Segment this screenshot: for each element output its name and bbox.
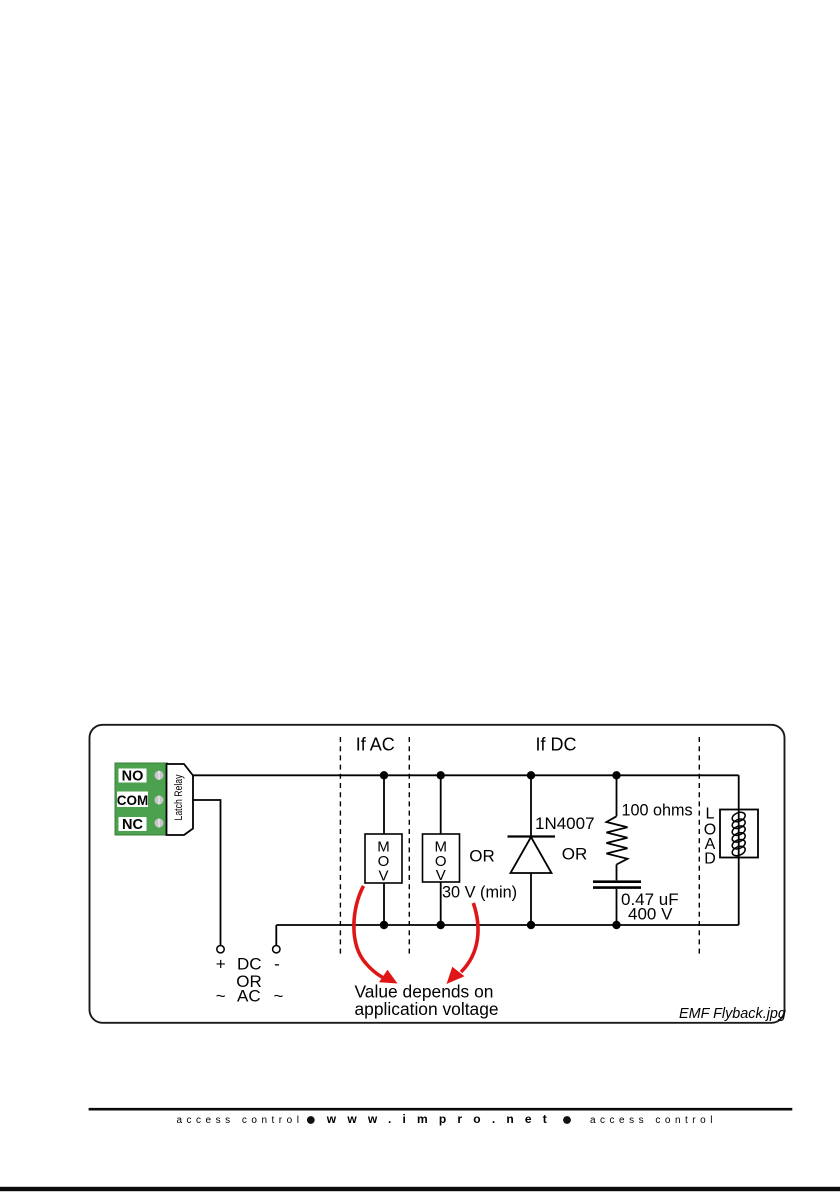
wire MOV2 bottom lead: [440, 882, 442, 925]
svg-text:400 V: 400 V: [628, 905, 673, 924]
varistor MOV1: [365, 834, 402, 883]
svg-text:D: D: [704, 850, 716, 867]
svg-text:AC: AC: [237, 987, 261, 1006]
diode D1 triangle: [511, 837, 552, 873]
footer bullet left: [307, 1116, 315, 1124]
inductor coil: [731, 810, 747, 857]
node bottom MOV1: [380, 921, 388, 929]
screw NO: [155, 771, 164, 780]
node top MOV2: [437, 771, 445, 779]
relay housing (Latch Relay): [167, 764, 194, 835]
wire bottom rail: [276, 924, 738, 926]
load box: [720, 810, 758, 858]
terminal label NO: [119, 769, 147, 783]
svg-text:30 V (min): 30 V (min): [442, 884, 517, 902]
load wire through box: [738, 810, 740, 858]
node bottom diode: [527, 921, 535, 929]
terminal circle minus: [273, 946, 280, 953]
wire MOV1 bottom lead: [383, 883, 385, 925]
svg-text:www.impro.net: www.impro.net: [326, 1112, 558, 1126]
svg-text:NO: NO: [122, 769, 144, 785]
svg-text:OR: OR: [562, 845, 588, 864]
dashed separator line left of If AC: [339, 737, 341, 955]
wire minus terminal drop: [275, 925, 277, 946]
svg-text:NC: NC: [122, 817, 143, 833]
svg-text:access control: access control: [590, 1115, 717, 1126]
screw COM: [155, 796, 164, 805]
svg-text:access control: access control: [177, 1115, 304, 1126]
svg-text:V: V: [378, 868, 388, 885]
screw NC: [155, 819, 164, 828]
svg-text:If AC: If AC: [356, 735, 395, 755]
wire top rail from NO to load branch: [193, 774, 739, 776]
varistor MOV2: [423, 834, 460, 882]
wire load branch vertical: [738, 775, 740, 925]
diagram frame: [90, 725, 785, 1023]
svg-text:~: ~: [274, 987, 284, 1006]
node top diode: [527, 771, 535, 779]
wire diode bottom lead: [530, 873, 532, 925]
wire MOV2 top lead: [440, 775, 442, 834]
bottom edge bar: [0, 1187, 840, 1191]
red annotation arrow right: [461, 903, 478, 972]
svg-text:application voltage: application voltage: [355, 999, 499, 1019]
footer rule: [89, 1108, 793, 1111]
svg-text:V: V: [436, 867, 446, 884]
svg-text:OR: OR: [469, 847, 495, 866]
svg-text:If DC: If DC: [535, 735, 576, 755]
svg-text:Latch Relay: Latch Relay: [173, 774, 185, 820]
capacitor plate bottom: [593, 886, 641, 889]
node top MOV1: [380, 771, 388, 779]
svg-text:1N4007: 1N4007: [535, 814, 595, 833]
wire MOV1 top lead: [383, 775, 385, 834]
svg-text:L: L: [706, 805, 715, 822]
svg-text:DC: DC: [237, 955, 262, 974]
wire diode top lead: [530, 775, 532, 836]
dashed separator line between If AC and If DC: [408, 737, 410, 955]
red annotation arrow left: [354, 886, 386, 979]
capacitor plate top: [593, 880, 641, 883]
footer bullet right: [563, 1116, 571, 1124]
resistor 100 ohms zigzag: [606, 816, 627, 864]
wire from COM terminal: [193, 800, 221, 946]
wire resistor top lead: [616, 775, 618, 816]
svg-text:-: -: [274, 955, 280, 974]
svg-text:COM: COM: [117, 793, 149, 808]
wire resistor to capacitor: [616, 865, 618, 881]
terminal label COM: [117, 792, 148, 808]
node bottom capacitor: [612, 921, 620, 929]
terminal circle plus: [217, 946, 224, 953]
node bottom MOV2: [437, 921, 445, 929]
terminal block body (green): [115, 763, 168, 835]
svg-text:EMF Flyback.jpg: EMF Flyback.jpg: [679, 1006, 786, 1022]
wire capacitor bottom lead: [616, 889, 618, 925]
node top resistor: [612, 771, 620, 779]
svg-text:100 ohms: 100 ohms: [622, 802, 693, 820]
terminal label NC: [119, 817, 147, 831]
dashed separator line right of If DC: [698, 737, 700, 955]
svg-text:~: ~: [216, 987, 226, 1006]
diode D1 1N4007 cathode bar: [508, 835, 556, 837]
svg-text:+: +: [216, 955, 226, 974]
